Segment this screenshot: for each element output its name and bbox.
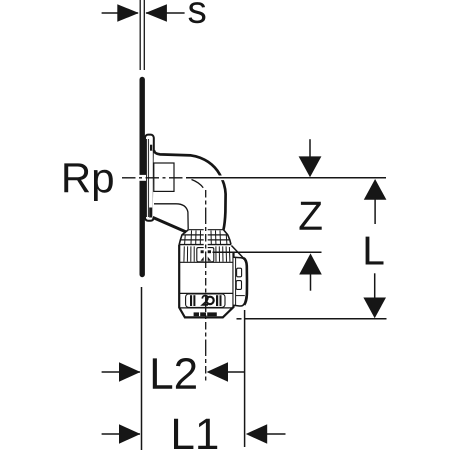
flange plate <box>145 135 154 221</box>
outlet centerline <box>205 190 207 382</box>
clip shoulder diagonal <box>231 246 243 258</box>
body separator lower <box>179 292 233 294</box>
centerline halo over wall <box>139 175 146 181</box>
dimension s arrow left (points right) <box>117 4 139 22</box>
L1 dimension line left <box>102 433 140 435</box>
label L2 <box>153 358 196 389</box>
label L1 <box>174 419 217 449</box>
clip outer edge thick <box>244 258 247 305</box>
Rp axis dash-dot portion <box>122 177 186 179</box>
flange seal mark upper <box>150 145 152 151</box>
clip lower cross line <box>236 295 245 297</box>
L1 arrow left (points right) <box>119 424 140 444</box>
L2 arrow right (points left) <box>207 362 228 382</box>
label Z <box>300 202 322 230</box>
upper band ribs <box>184 246 230 261</box>
wall lower extension line <box>141 287 143 450</box>
flange gasket line <box>146 139 148 217</box>
socket flare left side <box>179 230 188 245</box>
collar knurling <box>185 231 227 245</box>
L1 dimension line right <box>266 433 285 435</box>
Rp thread socket rectangle <box>154 163 174 191</box>
elbow bottom outer edge (diagonal) <box>153 217 187 232</box>
L top arrow (up) <box>364 179 387 200</box>
Z bottom reference line <box>213 251 322 253</box>
socket mouth ring <box>188 229 223 231</box>
clip inner line <box>235 258 237 305</box>
elbow inner profile line <box>154 204 188 230</box>
Rp axis / Z top reference line solid <box>186 177 386 179</box>
elbow body white fill <box>153 150 234 317</box>
size marking 2 <box>202 296 208 305</box>
size marking bars left <box>190 295 192 306</box>
clip top corner wedge <box>243 258 246 262</box>
size marking bars right <box>216 295 218 306</box>
socket ring 3 <box>180 239 229 241</box>
label L <box>366 237 384 265</box>
indicator triangle <box>201 254 212 260</box>
retaining clip outline <box>234 257 248 306</box>
L2 arrow left (points right) <box>119 362 140 382</box>
L bottom arrow (down) <box>374 273 376 299</box>
lower band panel <box>186 294 225 307</box>
dimension s arrow right (points left) <box>145 4 167 22</box>
connector body sides <box>179 245 233 318</box>
size marking ring <box>206 297 213 304</box>
indicator window <box>197 248 214 262</box>
centerline halo over collar rings and indicator <box>204 228 208 262</box>
centerline halo over outer arc <box>212 176 229 181</box>
L1 arrow right (points left) <box>246 424 267 444</box>
dimension s line left <box>102 12 138 14</box>
dimension s line right <box>146 12 185 14</box>
bottom cap line <box>180 307 233 309</box>
clip window 2 <box>236 281 241 290</box>
L bottom reference line <box>237 318 242 320</box>
flange seal mark lower <box>149 208 152 218</box>
elbow inner bore arc <box>192 180 204 188</box>
socket flare right side <box>224 230 232 245</box>
socket ring 2 <box>182 234 228 236</box>
right extension line <box>244 310 246 447</box>
connector body top line <box>179 244 231 246</box>
Z bottom arrow (up) <box>299 253 322 274</box>
wall section bar <box>139 80 144 275</box>
elbow outer outline <box>154 150 226 229</box>
wall face extension double line (top) <box>140 0 144 70</box>
Z top arrow (down) <box>309 139 311 158</box>
clip window 1 <box>237 268 242 277</box>
L2 dimension line left <box>102 371 140 373</box>
bottom cap label strip <box>194 312 217 316</box>
insertion depth mark bar <box>201 250 211 253</box>
L2 dimension line right <box>227 371 245 373</box>
label s <box>189 2 206 23</box>
body separator upper <box>179 261 233 263</box>
label Rp <box>64 163 113 201</box>
